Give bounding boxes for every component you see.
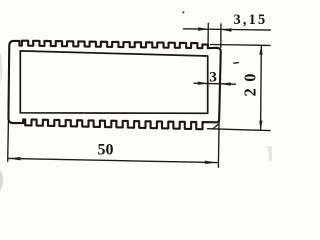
extension line inner-right wall up to 3,15 dim	[207, 23, 209, 48]
extension line outer-right wall up to 3,15 dim	[220, 24, 222, 48]
arrow 3 left	[198, 82, 208, 85]
arrow 3 right	[221, 82, 231, 85]
stray dash near 20	[234, 62, 239, 65]
extension line 20 bottom	[208, 129, 270, 131]
extension line 50 right (below profile)	[217, 120, 220, 167]
arrow 3,15 left	[198, 27, 208, 30]
dimension line 3	[194, 83, 236, 84]
scan smudge bottom-left corner	[0, 170, 3, 192]
dimension line 3,15	[184, 29, 271, 30]
scan smudge bottom-right	[266, 146, 272, 161]
profile inner cavity	[20, 51, 207, 113]
arrow 20 top	[259, 45, 262, 55]
speck top	[182, 11, 184, 13]
tick at bottom extension crossing	[213, 124, 218, 129]
dimension line 50	[8, 158, 217, 162]
svg-text:20: 20	[241, 67, 260, 97]
arrow 50 right	[205, 161, 217, 164]
extension line 20 top	[211, 44, 270, 47]
svg-text:3,15: 3,15	[234, 12, 268, 28]
svg-text:50: 50	[98, 141, 114, 158]
svg-text:3: 3	[209, 68, 217, 85]
arrow 20 bottom	[259, 121, 262, 131]
arrow 3,15 right	[221, 28, 232, 31]
arrow 50 left	[8, 157, 20, 160]
extension line 50 left (below profile)	[7, 121, 10, 161]
profile outer outline with serrated top and bottom	[8, 41, 220, 130]
dimension line 20 vertical	[260, 45, 263, 130]
scan smudge left edge	[0, 52, 2, 84]
